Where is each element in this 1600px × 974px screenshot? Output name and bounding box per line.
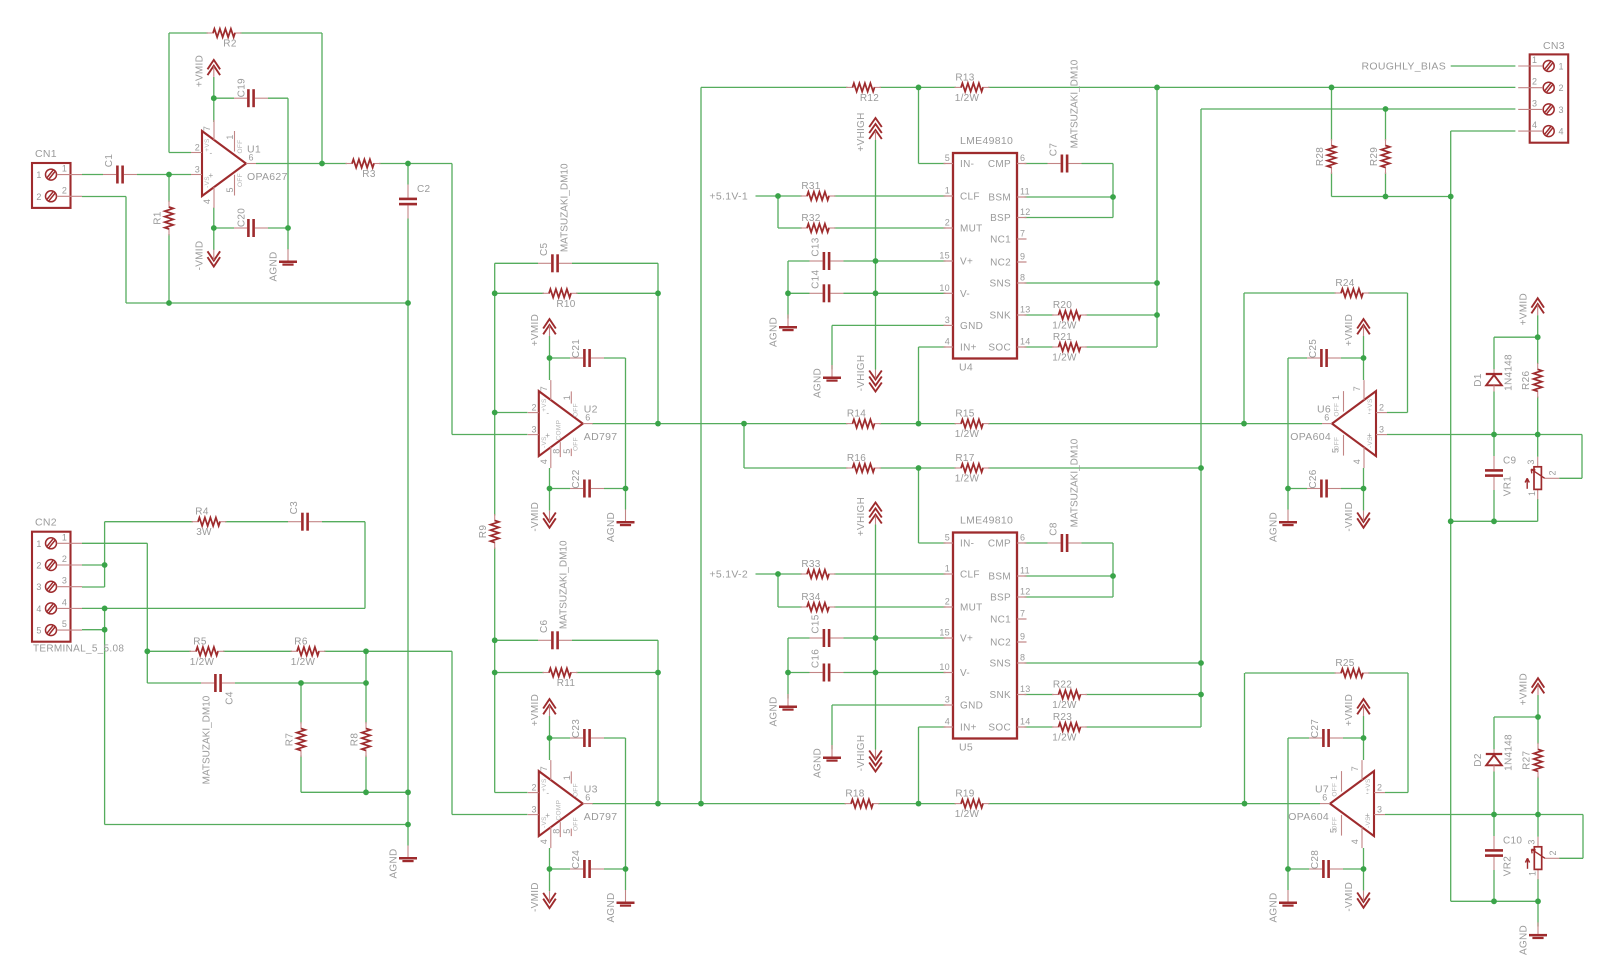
pin 3 xyxy=(46,581,57,592)
svg-text:R8: R8 xyxy=(350,733,361,747)
wire xyxy=(831,705,833,750)
wire xyxy=(1451,65,1516,67)
pin 4 xyxy=(46,603,57,614)
wire xyxy=(549,716,551,760)
svg-text:OFF: OFF xyxy=(1334,437,1341,451)
wire xyxy=(1385,173,1387,197)
resistor R9 xyxy=(478,514,499,549)
svg-text:C22: C22 xyxy=(571,469,582,488)
power symbol +VMID xyxy=(1344,314,1370,346)
svg-text:1: 1 xyxy=(62,532,67,542)
svg-text:-: - xyxy=(1366,788,1369,797)
junction xyxy=(1154,280,1160,286)
svg-text:+: + xyxy=(1365,811,1370,820)
capacitor C14 xyxy=(810,270,844,303)
svg-text:V+: V+ xyxy=(960,257,973,268)
wire xyxy=(988,86,1515,88)
svg-text:U2: U2 xyxy=(584,404,598,416)
power symbol -VMID xyxy=(530,502,556,532)
junction xyxy=(623,866,629,872)
wire xyxy=(1494,336,1538,338)
svg-text:1: 1 xyxy=(1331,395,1341,400)
wire xyxy=(147,650,191,652)
capacitor C8 xyxy=(1048,522,1082,552)
wire xyxy=(168,175,170,203)
svg-text:OFF: OFF xyxy=(237,140,244,154)
svg-text:AD797: AD797 xyxy=(584,431,618,443)
wire xyxy=(1493,337,1495,369)
svg-text:11: 11 xyxy=(1020,187,1030,197)
svg-text:SNK: SNK xyxy=(990,690,1011,701)
svg-text:1/2W: 1/2W xyxy=(1052,353,1077,364)
junction xyxy=(1361,735,1367,741)
svg-text:1: 1 xyxy=(945,564,950,574)
svg-text:1/2W: 1/2W xyxy=(955,93,980,104)
svg-text:C14: C14 xyxy=(811,270,822,289)
power symbol +VMID xyxy=(194,55,220,87)
wire xyxy=(1363,468,1365,511)
power symbol -VMID xyxy=(1344,502,1370,532)
wire xyxy=(1363,336,1365,380)
wire xyxy=(918,727,920,804)
wire xyxy=(1537,695,1539,717)
svg-text:-VMID: -VMID xyxy=(1344,502,1355,532)
wire xyxy=(407,303,409,825)
wire xyxy=(878,803,956,805)
wire xyxy=(1537,435,1539,457)
wire xyxy=(1407,293,1409,413)
wire xyxy=(1245,803,1321,805)
wire xyxy=(880,467,957,469)
svg-text:OPA627: OPA627 xyxy=(247,171,288,183)
svg-text:R21: R21 xyxy=(1053,332,1072,343)
wire xyxy=(364,522,366,609)
svg-text:OFF: OFF xyxy=(1332,817,1339,831)
junction xyxy=(1198,692,1204,698)
svg-text:C8: C8 xyxy=(1049,522,1060,536)
svg-text:3: 3 xyxy=(1527,839,1537,844)
wire xyxy=(787,673,789,699)
svg-text:U6: U6 xyxy=(1317,404,1331,416)
svg-text:R1: R1 xyxy=(153,211,164,225)
resistor R33 xyxy=(801,559,836,578)
wire xyxy=(744,467,848,469)
svg-text:C3: C3 xyxy=(289,501,300,515)
wire xyxy=(1331,173,1333,197)
svg-text:5: 5 xyxy=(945,533,950,543)
svg-text:AGND: AGND xyxy=(606,892,617,922)
svg-text:9: 9 xyxy=(1020,632,1025,642)
junction xyxy=(655,290,661,296)
resistor R12 xyxy=(846,83,881,104)
svg-text:CLF: CLF xyxy=(960,570,980,581)
svg-text:R3: R3 xyxy=(362,169,376,180)
svg-text:10: 10 xyxy=(939,283,950,293)
wire xyxy=(549,336,551,380)
svg-text:-VHIGH: -VHIGH xyxy=(856,735,867,772)
svg-text:R7: R7 xyxy=(285,733,296,747)
svg-text:+VMID: +VMID xyxy=(1519,673,1530,705)
svg-text:MUT: MUT xyxy=(960,603,983,614)
resistor R19 xyxy=(955,789,990,821)
svg-text:3: 3 xyxy=(531,805,536,815)
svg-text:4: 4 xyxy=(202,199,212,204)
wire xyxy=(625,869,627,890)
svg-text:4: 4 xyxy=(1350,839,1360,844)
svg-text:C2: C2 xyxy=(417,184,431,195)
wire xyxy=(1343,737,1364,739)
wire xyxy=(137,174,191,176)
svg-text:C25: C25 xyxy=(1308,339,1319,358)
svg-text:BSP: BSP xyxy=(990,593,1011,604)
junction xyxy=(785,290,791,296)
wire xyxy=(592,803,846,805)
svg-text:D2: D2 xyxy=(1473,753,1484,767)
svg-text:OFF: OFF xyxy=(572,403,579,417)
wire xyxy=(223,650,292,652)
svg-text:R28: R28 xyxy=(1315,147,1326,166)
wire xyxy=(1537,879,1539,901)
resistor R16 xyxy=(846,453,881,472)
junction xyxy=(1241,421,1247,427)
svg-text:AGND: AGND xyxy=(813,368,824,398)
wire xyxy=(832,704,946,706)
svg-text:4: 4 xyxy=(1559,127,1564,137)
wire xyxy=(495,262,538,264)
resistor R2 xyxy=(207,29,242,50)
wire xyxy=(1025,575,1114,577)
junction xyxy=(1535,432,1541,438)
capacitor C15 xyxy=(810,614,844,647)
wire xyxy=(82,607,365,609)
svg-text:15: 15 xyxy=(939,251,950,261)
junction xyxy=(785,670,791,676)
junction xyxy=(655,801,661,807)
svg-text:NC1: NC1 xyxy=(990,615,1011,626)
svg-text:7: 7 xyxy=(1020,609,1025,619)
svg-text:AGND: AGND xyxy=(606,512,617,542)
junction xyxy=(211,225,217,231)
svg-text:7: 7 xyxy=(202,126,212,131)
capacitor C7 xyxy=(1048,143,1082,173)
svg-text:AGND: AGND xyxy=(1519,925,1530,955)
svg-text:R16: R16 xyxy=(847,453,866,464)
op-amp U2 AD797 xyxy=(528,380,618,468)
wire xyxy=(604,488,626,490)
svg-text:-VMID: -VMID xyxy=(1344,882,1355,912)
svg-text:2: 2 xyxy=(62,554,67,564)
svg-text:C16: C16 xyxy=(811,649,822,668)
wire xyxy=(494,263,496,412)
wire xyxy=(494,640,496,792)
power symbol +VMID xyxy=(530,314,556,346)
svg-text:C24: C24 xyxy=(571,850,582,869)
pin 6 CMP xyxy=(1017,163,1027,165)
wire xyxy=(875,525,877,750)
svg-text:1/2W: 1/2W xyxy=(955,474,980,485)
wire xyxy=(82,196,126,198)
svg-text:CLF: CLF xyxy=(960,192,980,203)
svg-text:OFF: OFF xyxy=(237,173,244,187)
wire xyxy=(576,292,658,294)
svg-text:+5.1V-1: +5.1V-1 xyxy=(709,191,748,203)
svg-text:4: 4 xyxy=(539,839,549,844)
wire xyxy=(1025,542,1048,544)
wire xyxy=(1288,488,1307,490)
wire xyxy=(1112,543,1114,597)
svg-text:1: 1 xyxy=(945,186,950,196)
svg-text:R4: R4 xyxy=(195,507,209,518)
svg-text:2: 2 xyxy=(945,218,950,228)
svg-text:AGND: AGND xyxy=(1269,512,1280,542)
wire xyxy=(834,227,946,229)
svg-text:R2: R2 xyxy=(223,39,237,50)
svg-text:U1: U1 xyxy=(247,144,261,156)
svg-text:3: 3 xyxy=(62,576,67,586)
wire xyxy=(168,33,170,153)
wire xyxy=(657,640,659,803)
svg-text:+: + xyxy=(1367,431,1372,440)
power symbol +VMID xyxy=(1519,673,1545,705)
junction xyxy=(1198,660,1204,666)
junction xyxy=(285,225,291,231)
svg-text:R12: R12 xyxy=(860,93,879,104)
svg-text:-: - xyxy=(546,788,549,797)
svg-text:3W: 3W xyxy=(196,527,212,538)
svg-text:1: 1 xyxy=(1528,871,1538,876)
wire xyxy=(379,163,452,165)
wire xyxy=(365,756,367,793)
resistor R23 xyxy=(1052,712,1087,744)
svg-text:6: 6 xyxy=(1020,533,1025,543)
svg-text:R15: R15 xyxy=(955,409,974,420)
wire xyxy=(1407,673,1409,793)
svg-text:1: 1 xyxy=(36,539,41,549)
svg-text:NC2: NC2 xyxy=(990,638,1011,649)
wire xyxy=(1287,738,1289,869)
wire xyxy=(1082,542,1114,544)
wire xyxy=(147,682,201,684)
junction xyxy=(1285,486,1291,492)
wire xyxy=(1025,282,1158,284)
svg-text:11: 11 xyxy=(1020,566,1030,576)
resistor R3 xyxy=(346,159,381,180)
wire xyxy=(495,639,538,641)
wire xyxy=(1494,716,1538,718)
wire xyxy=(495,292,544,294)
svg-text:COMP: COMP xyxy=(555,420,562,441)
wire xyxy=(604,357,626,359)
svg-text:R24: R24 xyxy=(1335,278,1354,289)
wire xyxy=(1025,163,1048,165)
wire xyxy=(1537,315,1539,337)
wire xyxy=(788,637,810,639)
junction xyxy=(1491,898,1497,904)
wire xyxy=(1288,868,1309,870)
ground AGND xyxy=(1519,922,1548,955)
capacitor C26 xyxy=(1307,469,1341,497)
pin 4 IN+ xyxy=(944,726,954,728)
wire xyxy=(1493,435,1495,457)
junction xyxy=(1110,573,1116,579)
wire xyxy=(1385,109,1387,141)
wire xyxy=(1493,717,1495,749)
svg-text:2: 2 xyxy=(531,783,536,793)
wire xyxy=(169,32,208,34)
power symbol +VMID xyxy=(1344,694,1370,726)
svg-text:NC2: NC2 xyxy=(990,258,1011,269)
svg-text:1/2W: 1/2W xyxy=(1052,733,1077,744)
resistor R4 xyxy=(192,507,227,539)
svg-text:3: 3 xyxy=(531,425,536,435)
wire xyxy=(1244,423,1322,425)
svg-text:GND: GND xyxy=(960,321,983,332)
power symbol +VMID xyxy=(530,694,556,726)
wire xyxy=(365,651,367,723)
capacitor C1 xyxy=(103,154,137,184)
junction xyxy=(873,670,879,676)
pin 8 SNS xyxy=(1017,662,1027,664)
wire xyxy=(214,227,234,229)
svg-text:7: 7 xyxy=(539,766,549,771)
wire xyxy=(787,638,789,673)
junction xyxy=(916,421,922,427)
pin 1 xyxy=(46,538,57,549)
wire xyxy=(1025,662,1202,664)
svg-text:C19: C19 xyxy=(237,78,248,97)
resistor R29 xyxy=(1369,139,1390,174)
svg-text:+5.1V-2: +5.1V-2 xyxy=(709,569,748,581)
svg-text:+VHIGH: +VHIGH xyxy=(856,497,867,536)
svg-text:R27: R27 xyxy=(1522,751,1533,770)
svg-text:+VMID: +VMID xyxy=(1344,314,1355,346)
wire xyxy=(104,608,106,824)
junction xyxy=(211,95,217,101)
wire xyxy=(1332,196,1451,198)
svg-text:2: 2 xyxy=(945,597,950,607)
svg-text:OFF: OFF xyxy=(572,783,579,797)
junction xyxy=(1154,85,1160,91)
diode D2 1N4148 xyxy=(1473,734,1515,772)
svg-text:OFF: OFF xyxy=(572,817,579,831)
svg-text:+VMID: +VMID xyxy=(530,694,541,726)
wire xyxy=(549,848,551,891)
wire xyxy=(324,650,452,652)
pin 14 SOC xyxy=(1017,346,1027,348)
wire xyxy=(287,228,289,250)
svg-text:1: 1 xyxy=(1559,62,1564,72)
wire xyxy=(1537,717,1539,744)
junction xyxy=(166,300,172,306)
svg-text:U3: U3 xyxy=(584,784,598,796)
svg-text:2: 2 xyxy=(1548,470,1558,475)
wire xyxy=(1387,434,1582,436)
wire xyxy=(407,164,409,185)
svg-text:OFF: OFF xyxy=(1334,403,1341,417)
resistor R11 xyxy=(543,668,578,689)
op-amp U1 OPA627 xyxy=(191,120,288,208)
svg-text:V+: V+ xyxy=(960,634,973,645)
junction xyxy=(1329,85,1335,91)
wire xyxy=(604,737,626,739)
svg-text:1/2W: 1/2W xyxy=(1052,700,1077,711)
pin 13 SNK xyxy=(1017,314,1027,316)
svg-text:1/2W: 1/2W xyxy=(190,657,215,668)
pin 1 xyxy=(46,169,57,180)
pin 3 GND xyxy=(944,704,954,706)
svg-text:1: 1 xyxy=(562,395,572,400)
junction xyxy=(1535,334,1541,340)
junction xyxy=(1154,312,1160,318)
resistor R6 xyxy=(291,636,326,668)
wire xyxy=(451,651,453,814)
junction xyxy=(1448,518,1454,524)
pin 11 BSM xyxy=(1017,575,1027,577)
wire xyxy=(834,573,946,575)
svg-text:LME49810: LME49810 xyxy=(960,515,1013,527)
pin 3 GND xyxy=(944,324,954,326)
wire xyxy=(213,208,215,251)
op-amp U3 AD797 xyxy=(528,760,618,848)
resistor R20 xyxy=(1052,300,1087,332)
wire xyxy=(321,33,323,164)
pin 5 xyxy=(46,625,57,636)
wire xyxy=(1343,868,1364,870)
svg-text:C9: C9 xyxy=(1503,456,1517,467)
diode D1 1N4148 xyxy=(1473,354,1515,392)
wire xyxy=(494,548,496,641)
junction xyxy=(1535,812,1541,818)
junction xyxy=(873,635,879,641)
wire xyxy=(407,825,409,846)
svg-text:1/2W: 1/2W xyxy=(291,657,316,668)
svg-text:AGND: AGND xyxy=(813,748,824,778)
wire xyxy=(146,543,148,683)
wire xyxy=(988,423,1244,425)
wire xyxy=(1537,777,1539,815)
wire xyxy=(1493,870,1495,901)
svg-text:C20: C20 xyxy=(237,208,248,227)
svg-text:5: 5 xyxy=(945,153,950,163)
wire xyxy=(787,261,789,293)
svg-text:MATSUZAKI_DM10: MATSUZAKI_DM10 xyxy=(202,695,213,784)
junction xyxy=(405,300,411,306)
wire xyxy=(82,542,147,544)
wire xyxy=(1537,337,1539,364)
wire xyxy=(240,32,322,34)
svg-text:1/2W: 1/2W xyxy=(955,429,980,440)
svg-text:R25: R25 xyxy=(1335,658,1354,669)
svg-text:C27: C27 xyxy=(1310,719,1321,738)
IC U5 LME49810 xyxy=(939,515,1030,754)
junction xyxy=(1491,812,1497,818)
svg-text:3: 3 xyxy=(945,695,950,705)
resistor R5 xyxy=(190,636,225,668)
junction xyxy=(741,421,747,427)
svg-text:3: 3 xyxy=(1377,805,1382,815)
pin 2 xyxy=(1543,82,1554,93)
svg-text:CMP: CMP xyxy=(988,159,1011,170)
svg-text:C6: C6 xyxy=(539,619,550,633)
junction xyxy=(1361,486,1367,492)
wire xyxy=(1493,772,1495,815)
junction xyxy=(1361,866,1367,872)
connector CN1 xyxy=(32,163,82,208)
wire xyxy=(1244,673,1246,804)
wire xyxy=(592,423,848,425)
resistor R18 xyxy=(845,789,880,808)
resistor R1 xyxy=(153,201,174,236)
